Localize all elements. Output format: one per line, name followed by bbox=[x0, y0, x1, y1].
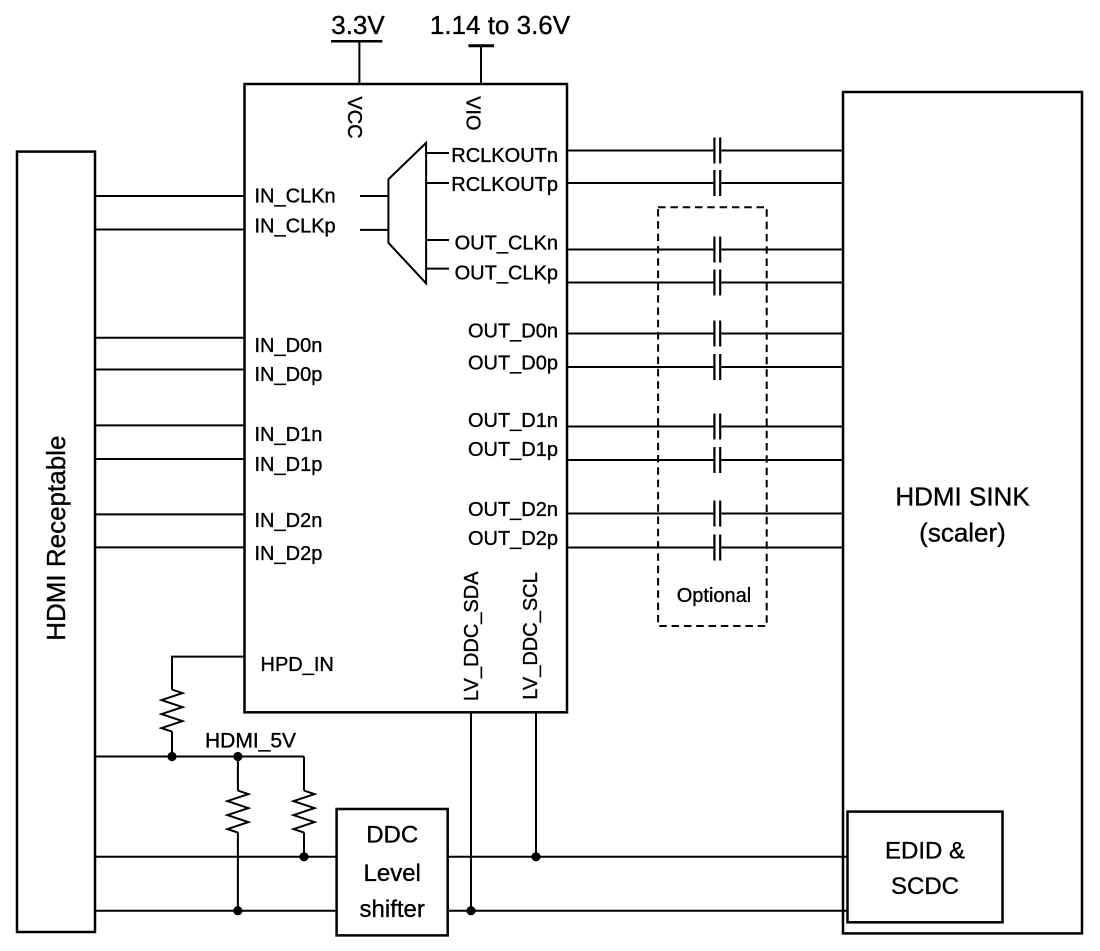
svg-text:SCDC: SCDC bbox=[891, 873, 959, 900]
svg-text:IN_CLKp: IN_CLKp bbox=[255, 216, 336, 238]
svg-text:IN_D0p: IN_D0p bbox=[255, 364, 323, 386]
svg-text:LV_DDC_SDA: LV_DDC_SDA bbox=[461, 571, 483, 701]
svg-text:(scaler): (scaler) bbox=[919, 518, 1006, 548]
svg-text:IN_D2p: IN_D2p bbox=[255, 543, 323, 565]
svg-text:OUT_D0p: OUT_D0p bbox=[468, 353, 558, 375]
svg-text:OUT_D1p: OUT_D1p bbox=[468, 439, 558, 461]
svg-text:IN_D0n: IN_D0n bbox=[255, 335, 323, 357]
svg-text:HDMI_5V: HDMI_5V bbox=[205, 729, 296, 752]
svg-text:RCLKOUTp: RCLKOUTp bbox=[451, 174, 558, 196]
svg-text:3.3V: 3.3V bbox=[331, 10, 385, 40]
svg-text:VIO: VIO bbox=[462, 96, 484, 130]
svg-text:HDMI Receptable: HDMI Receptable bbox=[41, 436, 71, 641]
svg-text:IN_D1p: IN_D1p bbox=[255, 454, 323, 476]
svg-text:1.14 to 3.6V: 1.14 to 3.6V bbox=[430, 10, 571, 40]
svg-text:IN_CLKn: IN_CLKn bbox=[255, 186, 336, 208]
svg-text:OUT_D2p: OUT_D2p bbox=[468, 528, 558, 550]
svg-text:VCC: VCC bbox=[343, 96, 365, 138]
svg-text:IN_D2n: IN_D2n bbox=[255, 510, 323, 532]
svg-text:OUT_CLKn: OUT_CLKn bbox=[455, 233, 558, 255]
svg-text:HPD_IN: HPD_IN bbox=[261, 654, 334, 676]
svg-text:OUT_CLKp: OUT_CLKp bbox=[455, 262, 558, 284]
svg-text:DDC: DDC bbox=[366, 822, 418, 849]
svg-text:OUT_D1n: OUT_D1n bbox=[468, 410, 558, 432]
svg-text:HDMI SINK: HDMI SINK bbox=[895, 482, 1030, 512]
svg-text:shifter: shifter bbox=[360, 896, 425, 923]
svg-text:IN_D1n: IN_D1n bbox=[255, 424, 323, 446]
svg-text:OUT_D0n: OUT_D0n bbox=[468, 321, 558, 343]
svg-text:RCLKOUTn: RCLKOUTn bbox=[451, 145, 558, 167]
svg-text:LV_DDC_SCL: LV_DDC_SCL bbox=[520, 572, 542, 699]
svg-text:Level: Level bbox=[364, 860, 421, 887]
svg-text:EDID &: EDID & bbox=[885, 838, 965, 865]
svg-text:OUT_D2n: OUT_D2n bbox=[468, 499, 558, 521]
svg-text:Optional: Optional bbox=[677, 585, 752, 607]
